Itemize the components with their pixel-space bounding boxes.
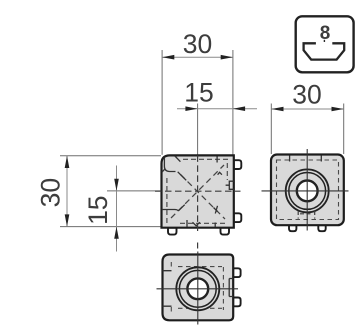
bottom view: middle circle xyxy=(179,270,216,307)
front view: BR diagonal half arrow xyxy=(214,206,218,214)
dimension 30 left: top arrow xyxy=(65,156,70,168)
front view: hidden dashed bottom inset xyxy=(180,222,225,224)
front view: right foot xyxy=(221,228,230,235)
dimension 30 top: dimension line xyxy=(162,56,233,58)
bottom view: right edge channel xyxy=(229,279,233,297)
dimension 30 right view: extension line left xyxy=(270,104,272,155)
front view: TL corner gusset hook xyxy=(164,158,175,172)
front view: TR corner stub xyxy=(217,157,222,175)
dimension 15 top: dimension line xyxy=(177,108,257,110)
groove size icon box xyxy=(296,16,354,72)
front view: TL corner gusset diagonal xyxy=(175,156,181,162)
bottom view: vertical centreline xyxy=(197,252,199,325)
dimension 30 right view: dimension line xyxy=(271,108,343,110)
dimension 15 top: left arrow outside xyxy=(185,106,197,111)
front view: horizontal centreline xyxy=(155,190,241,192)
dimension 15 top: right arrow outside xyxy=(233,106,245,111)
dimension 15 left: top arrow outside xyxy=(114,179,119,191)
front view body xyxy=(162,155,234,227)
right view: left foot xyxy=(289,225,296,231)
bottom view: left seam lines xyxy=(163,271,172,307)
dimension 15 left: dimension line xyxy=(116,166,118,252)
right view: bottom hidden slot xyxy=(298,211,315,219)
right view: top face stubs xyxy=(290,156,322,162)
dimension 15 top: extension line centre xyxy=(197,104,199,155)
svg-text:15: 15 xyxy=(83,195,113,224)
right view body xyxy=(271,155,344,226)
dimension 30 right view: left arrow xyxy=(271,107,283,112)
front view: hidden dashed left inset xyxy=(166,178,168,224)
front view: left foot xyxy=(168,228,177,235)
groove profile glyph xyxy=(304,43,345,59)
front view: bottom edge stubs xyxy=(187,220,215,227)
bottom view body xyxy=(163,255,234,321)
front view: diagonal dashed TL-BR xyxy=(181,175,226,220)
dimension 30 left: bottom arrow xyxy=(65,214,70,226)
dimension 30 left: extension line top xyxy=(60,155,161,157)
right view: hidden dashed inset square xyxy=(277,160,339,220)
right view: middle circle xyxy=(289,173,326,210)
front view: bottom tab right edge xyxy=(234,213,242,222)
groove icon label 8 xyxy=(320,23,331,44)
dimension 30 top: left arrow xyxy=(162,55,174,60)
front view: top tab right edge xyxy=(234,160,242,169)
svg-text:30: 30 xyxy=(36,178,66,207)
dimension 15 left: extension line middle xyxy=(107,190,161,192)
front view: diagonal dashed BL-TR xyxy=(171,165,224,218)
dimension 30 right view: right arrow xyxy=(332,107,344,112)
dimension 30 top: extension line left xyxy=(161,50,163,155)
right view: outer circle with fill xyxy=(286,169,329,212)
bottom view: top tab right edge xyxy=(233,268,240,277)
dimension 30 left: extension line bottom xyxy=(60,226,161,228)
dimension 30 right view: extension line right xyxy=(343,104,345,155)
dimension 15 left: bottom arrow outside xyxy=(114,227,119,239)
front view: hidden dashed top inset xyxy=(183,158,231,160)
right view: bore circle xyxy=(297,181,318,202)
svg-text:30: 30 xyxy=(183,29,212,59)
right view: vertical centreline xyxy=(306,149,308,231)
bottom view: horizontal centreline xyxy=(157,288,239,290)
front view: BL corner gusset xyxy=(162,205,185,211)
front view: right edge step detail xyxy=(226,181,234,189)
front view: hidden dashed right inset xyxy=(226,163,228,180)
dimension 30 left: dimension line xyxy=(66,156,68,227)
right view: horizontal centreline xyxy=(262,190,349,192)
bottom view: outer circle with fill xyxy=(176,267,219,310)
dimension 30 top: extension line right xyxy=(232,50,234,155)
front view: TL corner gusset join xyxy=(162,169,186,180)
bottom view: bore circle xyxy=(187,278,208,299)
svg-text:15: 15 xyxy=(184,78,213,108)
dimension 30 top: right arrow xyxy=(221,55,233,60)
front view: centreline link to bottom view xyxy=(197,243,199,249)
right view: right foot xyxy=(318,225,325,231)
bottom view: bottom tab right edge xyxy=(233,298,240,307)
front view: vertical centreline xyxy=(197,155,199,231)
svg-text:30: 30 xyxy=(292,79,321,109)
bottom view: hidden dashed inset xyxy=(171,262,223,315)
